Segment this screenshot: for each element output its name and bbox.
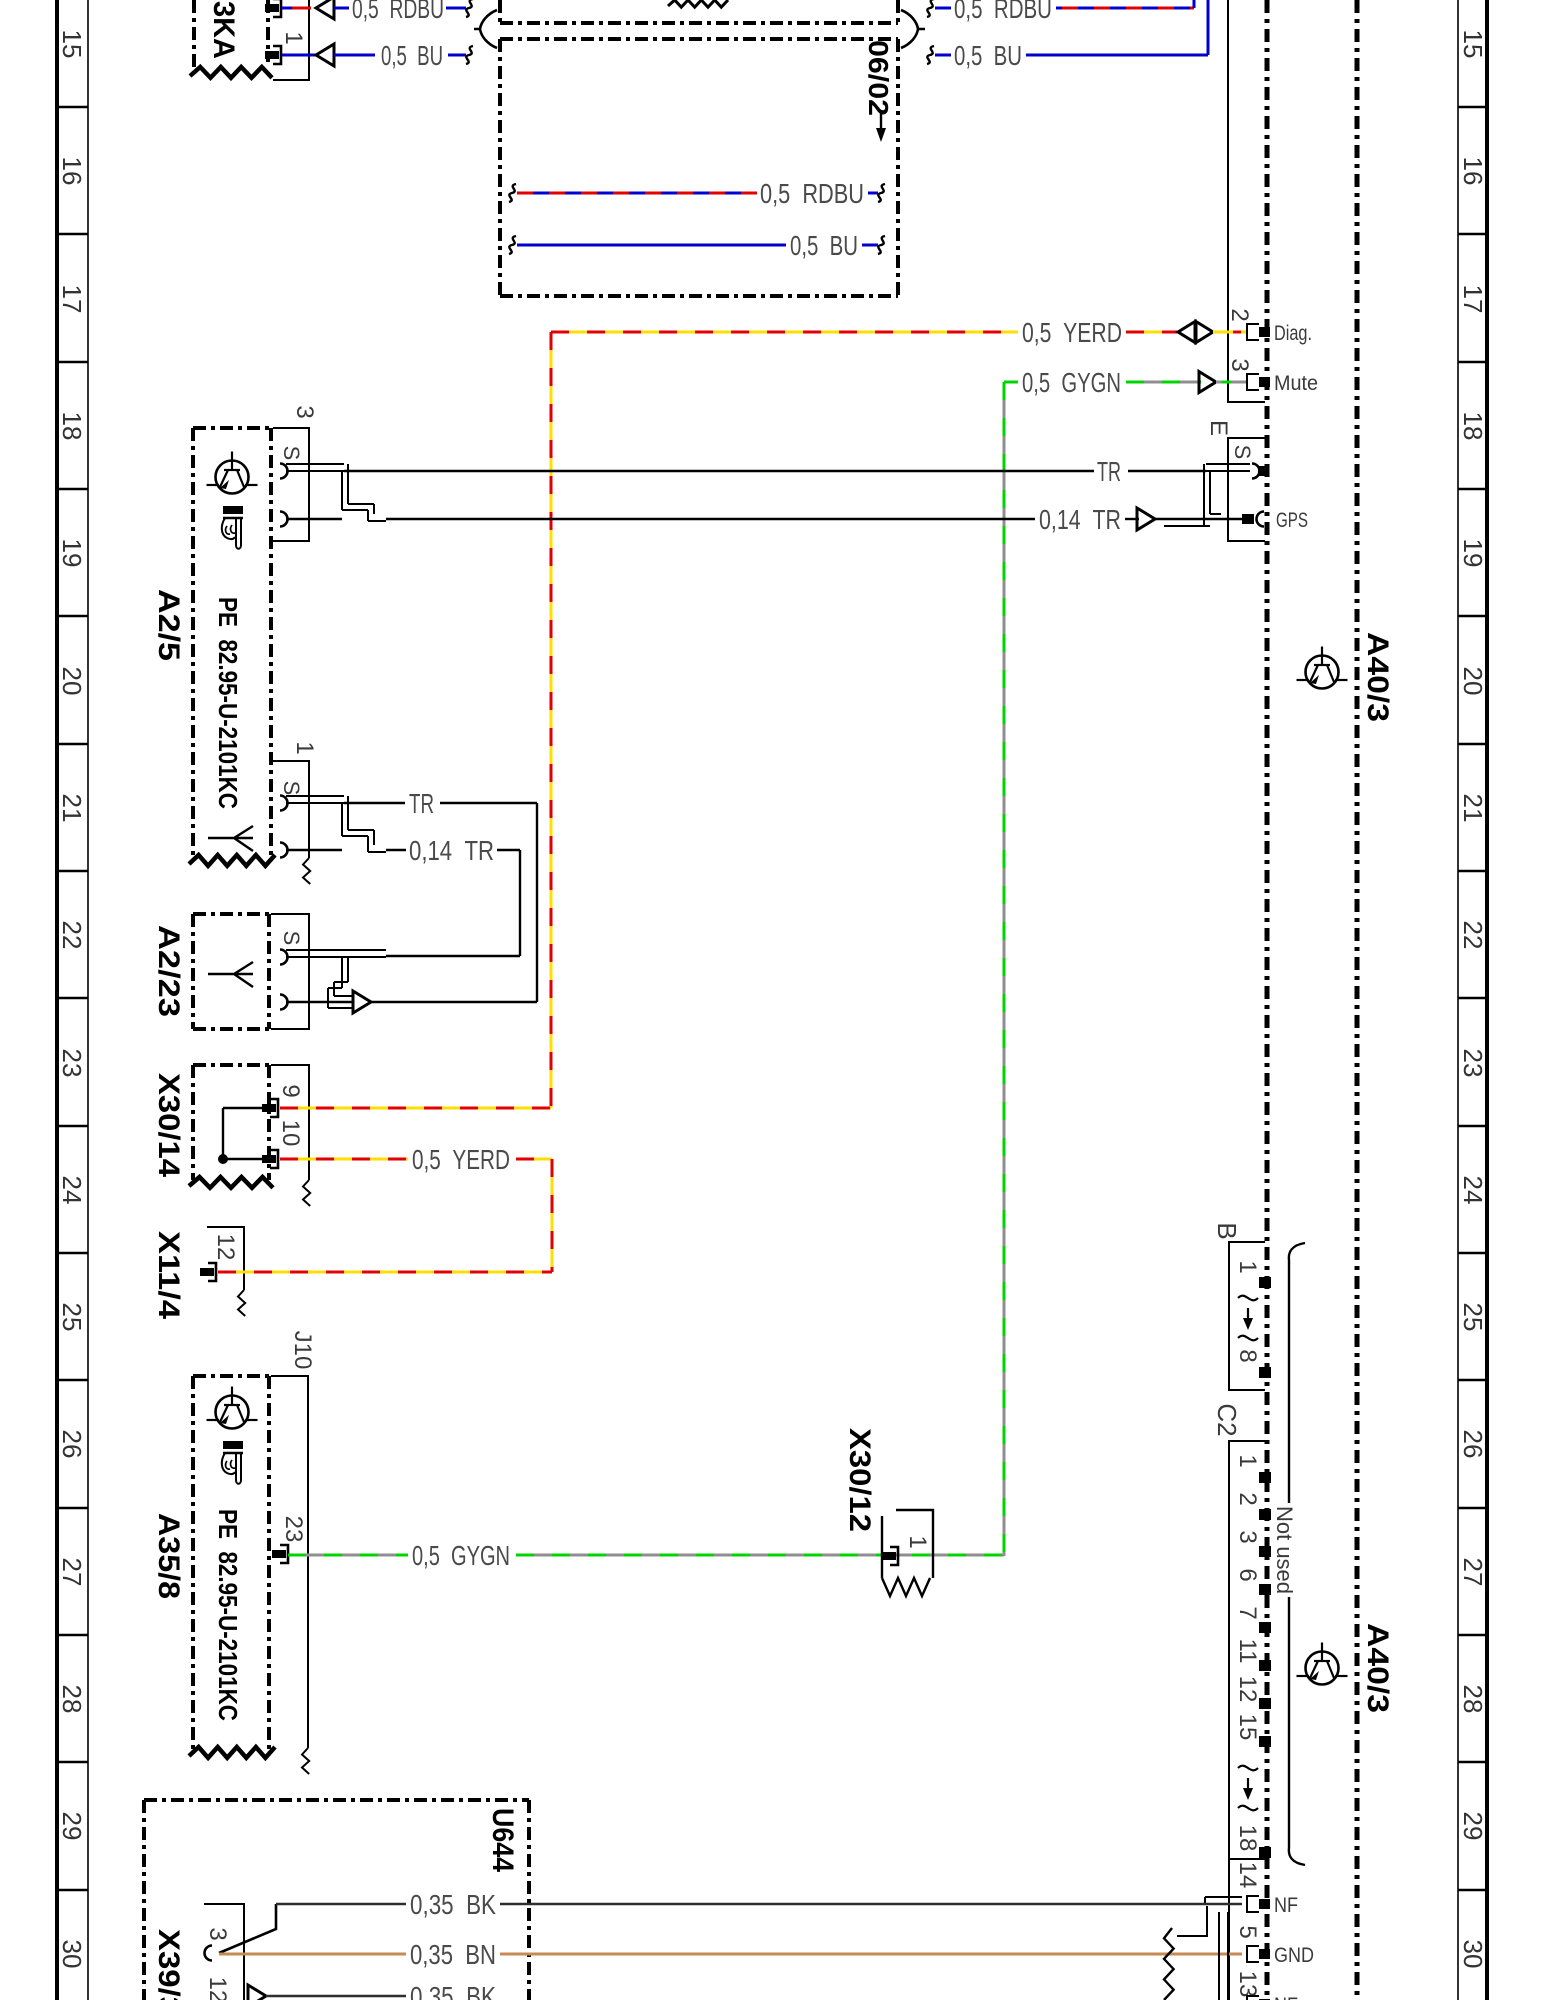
connector C2 bracket (1229, 1441, 1265, 1859)
svg-text:0,5 YERD: 0,5 YERD (1022, 317, 1122, 348)
svg-text:12: 12 (1234, 1676, 1261, 1703)
wire 0,5 BU (left, at 3KA) (282, 40, 473, 71)
pin range squiggle (B) (1238, 1296, 1258, 1301)
pin Mute contact (1247, 374, 1259, 390)
svg-text:0,5 RDBU: 0,5 RDBU (352, 0, 444, 24)
svg-text:22: 22 (57, 921, 87, 950)
pin squares C2 (1259, 1472, 1271, 1483)
pin 12 contact (208, 1263, 216, 1281)
component A2/5 box (189, 428, 275, 866)
svg-text:1: 1 (1234, 1260, 1261, 1273)
svg-text:18: 18 (57, 412, 87, 441)
svg-text:3: 3 (204, 1927, 231, 1940)
wire 0,5 RDBU (inside 06/02) (509, 178, 885, 209)
pin contact 3KA top (273, 0, 281, 17)
svg-text:5: 5 (1234, 1925, 1261, 1938)
connector X11/4 bracket (207, 1227, 244, 1290)
svg-text:TR: TR (409, 788, 434, 819)
svg-text:28: 28 (57, 1685, 87, 1714)
switch blade X39/3 (219, 1904, 276, 1953)
connector X30/14 box (189, 1065, 273, 1188)
svg-text:NF: NF (1274, 1894, 1298, 1917)
pin contact 2 A2/5 (280, 512, 288, 527)
pin NF contact (1247, 1896, 1259, 1912)
svg-text:A35/8: A35/8 (152, 1513, 185, 1599)
svg-text:S: S (279, 781, 304, 796)
svg-text:A2/5: A2/5 (152, 589, 185, 661)
control unit A40/3 border right (1355, 0, 1360, 2000)
svg-text:15: 15 (1234, 1714, 1261, 1741)
svg-text:10: 10 (277, 1120, 304, 1147)
svg-text:26: 26 (1458, 1430, 1488, 1459)
pin squares B (1259, 1277, 1271, 1288)
pin Diag. contact (1247, 324, 1259, 340)
pin 9 contact (270, 1099, 278, 1117)
svg-text:7: 7 (1234, 1606, 1261, 1619)
pin 3 contact (X39/3) (205, 1946, 212, 1961)
svg-text:0,14 TR: 0,14 TR (409, 835, 494, 866)
wire 0,5 GYGN from pin 23 (288, 1540, 1004, 1571)
svg-text:3: 3 (1234, 1530, 1261, 1543)
bracket J10 (271, 1376, 308, 1748)
left harness brace (474, 10, 497, 48)
svg-text:26: 26 (57, 1430, 87, 1459)
wire 0,35 BK (second, cut) (248, 1981, 496, 2005)
svg-text:S: S (279, 446, 304, 461)
amplifier symbol in A35/8 (216, 1396, 249, 1429)
pin S contact (E) (1252, 464, 1260, 479)
svg-text:2: 2 (1226, 308, 1253, 321)
wire 0,5 RDBU (to top edge) (927, 0, 1194, 24)
svg-text:0,5 GYGN: 0,5 GYGN (1022, 367, 1121, 398)
svg-text:0,5 BU: 0,5 BU (790, 230, 858, 261)
svg-text:0,14 TR: 0,14 TR (1039, 504, 1121, 535)
grouping parenthesis top (1289, 1243, 1305, 1503)
svg-text:0,5 RDBU: 0,5 RDBU (954, 0, 1052, 24)
shield glyph A2/23 (286, 950, 386, 1008)
svg-text:3: 3 (291, 405, 318, 418)
wire 0,5 GYGN vertical (1003, 382, 1006, 1556)
svg-text:0,5 GYGN: 0,5 GYGN (412, 1540, 510, 1571)
svg-text:29: 29 (1458, 1812, 1488, 1841)
wire 0,5 GYGN horizontal (1004, 367, 1247, 398)
connector bracket 1 (A2/5 lower) (273, 761, 309, 858)
bracket X39/3 (204, 1904, 244, 2000)
svg-text:PE 82.95-U-2101KC: PE 82.95-U-2101KC (213, 597, 243, 809)
pin contact 3KA pin 1 (273, 46, 281, 64)
svg-text:S: S (279, 931, 304, 946)
component 3KA box (190, 0, 272, 78)
svg-text:11: 11 (1234, 1639, 1261, 1664)
pin 1 contact (X30/12) (890, 1547, 898, 1565)
svg-text:12: 12 (204, 1977, 231, 2000)
svg-text:27: 27 (57, 1558, 87, 1587)
svg-text:0,35 BK: 0,35 BK (410, 1981, 496, 2000)
svg-text:0,5 BU: 0,5 BU (954, 40, 1022, 71)
svg-text:1: 1 (904, 1535, 931, 1548)
svg-text:X30/12: X30/12 (843, 1428, 876, 1532)
svg-text:25: 25 (57, 1303, 87, 1332)
svg-text:16: 16 (1458, 157, 1488, 186)
svg-text:18: 18 (1234, 1825, 1261, 1852)
svg-text:22: 22 (1458, 921, 1488, 950)
svg-text:GPS: GPS (1276, 509, 1308, 532)
svg-text:0,5 BU: 0,5 BU (381, 40, 443, 71)
connector bracket 3 (A2/5 upper) (273, 428, 309, 541)
svg-text:1: 1 (1234, 1454, 1261, 1467)
svg-text:C2: C2 (1212, 1403, 1242, 1436)
connector bracket pins 2,3 (A40/3 top) (1228, 0, 1265, 402)
wire 0,5 YERD horizontal (551, 317, 1247, 348)
wire YERD from pin 9 (280, 1107, 551, 1110)
svg-text:0,35 BK: 0,35 BK (410, 1889, 496, 1920)
svg-text:0,5 YERD: 0,5 YERD (412, 1144, 510, 1175)
svg-text:23: 23 (57, 1049, 87, 1078)
svg-text:Mute: Mute (1274, 372, 1318, 395)
svg-text:U644: U644 (486, 1808, 519, 1872)
pin GND contact (1247, 1946, 1259, 1962)
svg-text:GND: GND (1274, 1944, 1314, 1967)
hand note icon A35/8 (223, 1441, 243, 1449)
wire TR (A2/5 lower to A2/23) (344, 788, 537, 1002)
bracket X30/14 (271, 1065, 309, 1180)
shield step to squiggle (1177, 1906, 1207, 1936)
svg-text:16: 16 (57, 157, 87, 186)
svg-text:25: 25 (1458, 1303, 1488, 1332)
svg-text:23: 23 (1458, 1049, 1488, 1078)
svg-text:NF: NF (1274, 1994, 1298, 2000)
pin contact core A2/23 (280, 995, 288, 1010)
pin 10 contact (270, 1150, 278, 1168)
svg-text:15: 15 (57, 30, 87, 59)
wire 0,35 BK (NF) (276, 1889, 1242, 1920)
shield glyph A2/5 lower (286, 796, 386, 852)
component A2/23 box (193, 912, 269, 916)
svg-text:1: 1 (291, 741, 318, 754)
svg-text:0,5 RDBU: 0,5 RDBU (760, 178, 864, 209)
svg-text:3KA: 3KA (207, 1, 240, 59)
svg-text:23: 23 (280, 1516, 307, 1543)
svg-text:27: 27 (1458, 1558, 1488, 1587)
amplifier symbol in A40/3 (upper) (1306, 656, 1339, 689)
control unit A40/3 border left (1265, 0, 1270, 2000)
svg-text:30: 30 (57, 1940, 87, 1969)
svg-text:21: 21 (57, 794, 87, 823)
pin contact S (A2/5 lower) (280, 796, 288, 811)
svg-text:30: 30 (1458, 1940, 1488, 1969)
svg-text:18: 18 (1458, 412, 1488, 441)
wire 0,5 YERD vertical (550, 332, 553, 1108)
wire 0,35 BN (GND) (219, 1939, 1242, 1970)
svg-text:J10: J10 (289, 1331, 316, 1370)
svg-text:Diag.: Diag. (1274, 322, 1312, 345)
svg-text:A40/3: A40/3 (1361, 1623, 1394, 1713)
svg-text:6: 6 (1234, 1568, 1261, 1581)
svg-text:24: 24 (57, 1176, 87, 1205)
pin contact S A2/23 (280, 950, 288, 965)
svg-text:TR: TR (1097, 456, 1121, 487)
svg-text:06/02: 06/02 (863, 40, 894, 116)
svg-text:19: 19 (57, 539, 87, 568)
svg-text:12: 12 (212, 1234, 239, 1261)
pin contact (A2/5 lower core) (280, 843, 288, 858)
svg-text:14: 14 (1234, 1862, 1261, 1889)
grouping parenthesis bottom (1289, 1597, 1305, 1865)
wire 0,5 RDBU (left, at 3KA) (282, 0, 473, 24)
svg-text:S: S (1230, 445, 1255, 460)
svg-text:15: 15 (1458, 30, 1488, 59)
svg-text:PE 82.95-U-2101KC: PE 82.95-U-2101KC (213, 1509, 243, 1721)
amplifier symbol in A40/3 (lower) (1306, 1652, 1339, 1685)
pin GPS contact (1242, 514, 1254, 524)
connector bracket on 3KA (273, 0, 309, 80)
svg-text:20: 20 (57, 667, 87, 696)
svg-text:24: 24 (1458, 1176, 1488, 1205)
jumper inside X30/14 (218, 1108, 265, 1164)
svg-text:17: 17 (57, 285, 87, 314)
svg-text:E: E (1205, 420, 1232, 436)
svg-text:20: 20 (1458, 667, 1488, 696)
harness box (cut at top) (500, 0, 898, 23)
wire TR shield (344, 456, 1206, 487)
svg-text:29: 29 (57, 1812, 87, 1841)
svg-text:19: 19 (1458, 539, 1488, 568)
shield glyph at A2/5 upper (286, 464, 386, 521)
pin 23 contact (280, 1545, 288, 1563)
connector B bracket (1229, 1242, 1265, 1390)
svg-text:21: 21 (1458, 794, 1488, 823)
svg-text:X11/4: X11/4 (152, 1231, 185, 1319)
svg-text:Not used: Not used (1272, 1506, 1297, 1594)
svg-text:28: 28 (1458, 1685, 1488, 1714)
pin range squiggle (C2) (1238, 1766, 1258, 1771)
svg-text:X39/3: X39/3 (152, 1929, 185, 2000)
svg-text:1: 1 (280, 31, 307, 44)
svg-text:13: 13 (1234, 1971, 1261, 1998)
svg-text:B: B (1212, 1222, 1242, 1239)
harness box 06/02 (500, 39, 898, 296)
svg-text:0,35 BN: 0,35 BN (410, 1939, 496, 1970)
svg-text:17: 17 (1458, 285, 1488, 314)
shield pocket at NF (1205, 1897, 1242, 1904)
wire to core pin A2/23 with arrow (286, 991, 537, 1013)
wire 0,5 YERD from pin 10 (280, 1144, 552, 1272)
svg-text:X30/14: X30/14 (152, 1073, 185, 1177)
shield glyph at E connector (1164, 464, 1250, 526)
svg-text:8: 8 (1234, 1349, 1261, 1362)
pin contact S A2/5 (280, 464, 288, 479)
antenna symbol A2/23 (208, 962, 253, 987)
component A35/8 box (189, 1376, 275, 1758)
right harness brace (901, 10, 925, 48)
connector X30/12 (882, 1510, 933, 1596)
twist squiggle at bottom right (1164, 1928, 1174, 2000)
antenna symbol A2/5 (208, 826, 253, 851)
svg-text:A40/3: A40/3 (1361, 632, 1394, 722)
wire 0,14 TR core (386, 504, 1244, 535)
hand note icon A2/5 (223, 506, 243, 514)
component U644 box (144, 1800, 529, 2000)
wire 0,5 BU (inside 06/02) (509, 230, 885, 261)
svg-text:2: 2 (1234, 1492, 1261, 1505)
wire 0,14 TR (A2/5 lower to A2/23) (386, 835, 520, 956)
wire from 0,14 TR vertical to S pin A2/23 (386, 955, 520, 957)
connector bracket A2/23 (271, 914, 309, 1029)
amplifier symbol in A2/5 (216, 461, 249, 494)
wire 0,5 BU (to top edge) (927, 0, 1208, 71)
wire YERD to X11/4 (218, 1271, 552, 1274)
connector E bracket (1228, 438, 1265, 541)
svg-text:9: 9 (277, 1084, 304, 1097)
svg-text:3: 3 (1226, 358, 1253, 371)
svg-text:A2/23: A2/23 (152, 925, 185, 1017)
